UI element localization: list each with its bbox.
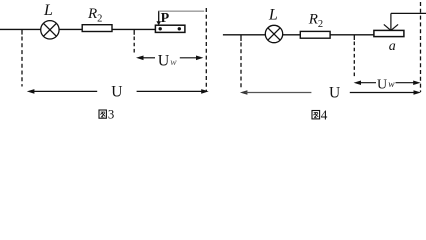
dashed extension line at x=134 (fig3 Uw left) <box>133 37 135 55</box>
node: fig3 junction between R2 and P (Uw left), solid stub <box>133 29 135 34</box>
caption fig4: hand-drawn CJK 图 glyph <box>312 111 320 119</box>
wire: fig3 wiper top line (gray) to right measurement point <box>159 10 205 12</box>
lamp L (fig4 circle with X) <box>265 25 282 42</box>
dashed extension line at x=241 (fig4 U left) <box>240 43 242 89</box>
wire: fig4 left feed into lamp L <box>223 34 266 36</box>
svg-text:w: w <box>170 58 177 68</box>
wiper arrow of P (vertical line + down arrowhead) <box>158 11 160 22</box>
lamp L (circle with X) <box>41 21 59 39</box>
wire: fig3 left feed into lamp L <box>0 28 41 30</box>
rheostat P (fig3 box with two terminal dots) <box>155 25 185 32</box>
dimension U (fig3): right arrow <box>137 90 203 92</box>
wire: fig4 wiper top line to right edge <box>391 12 426 14</box>
dimension Uw (fig3): left arrow <box>136 56 144 61</box>
wire: fig3 lamp to resistor R2 <box>59 28 83 30</box>
caption fig3: hand-drawn CJK 图 glyph <box>99 110 106 118</box>
node: fig4 junction before rheostat (Uw left), solid stub <box>353 35 355 40</box>
dashed extension line at x=22 (fig3 U left) <box>21 37 23 87</box>
rheostat a (fig4 resistor box) <box>374 30 404 36</box>
svg-text:4: 4 <box>321 107 328 122</box>
resistor R2 (fig3 box) <box>82 25 112 32</box>
svg-text:w: w <box>388 80 395 90</box>
wiper arrow of rheostat (vertical line + open V arrowhead) <box>390 13 392 30</box>
dimension U (fig4): right arrow <box>350 92 416 94</box>
wire: fig3 R2 to rheostat P <box>112 28 156 30</box>
dashed extension line at x=206 (fig3 right, Uw/U right) <box>205 8 207 92</box>
svg-text:3: 3 <box>108 108 114 122</box>
svg-text:L: L <box>268 6 278 23</box>
resistor R2 (fig4 box) <box>300 31 330 38</box>
dimension Uw (fig3): right arrow <box>180 57 198 59</box>
svg-text:P: P <box>161 11 170 26</box>
svg-text:a: a <box>389 39 396 54</box>
dimension U (fig3): left arrow <box>27 89 35 94</box>
svg-text:L: L <box>43 2 53 19</box>
svg-text:U: U <box>158 53 170 70</box>
node: fig4 left measurement point, solid stub <box>240 35 242 41</box>
svg-text:U: U <box>111 84 122 101</box>
dimension U (fig4): left arrow (gray) <box>240 90 248 95</box>
svg-text:U: U <box>377 77 387 92</box>
dashed extension line at x=420.5 (fig4 right) <box>420 2 422 92</box>
dimension Uw (fig4): left arrow <box>354 81 361 86</box>
node: fig3 left measurement point (battery side), solid stub <box>21 29 23 34</box>
svg-text:U: U <box>329 85 340 102</box>
dashed extension line at x=354 (fig4 Uw left) <box>353 42 355 79</box>
dimension Uw (fig4): right arrow <box>396 82 416 84</box>
wire: fig4 lamp to resistor R2 <box>282 34 301 36</box>
wire: fig4 R2 to rheostat a <box>330 34 374 36</box>
